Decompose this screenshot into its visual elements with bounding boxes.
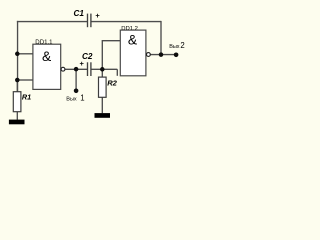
wire top feedback right segment xyxy=(91,21,161,23)
svg-text:R2: R2 xyxy=(107,79,117,88)
terminal Vyh2 dot xyxy=(174,53,179,58)
wire C2 to node B xyxy=(91,68,117,70)
resistor R2 body xyxy=(99,77,107,97)
capacitor C2 plates xyxy=(88,62,91,76)
wire right feedback drop xyxy=(160,21,162,55)
wire DD1.1 input 1 xyxy=(17,53,33,55)
wire DD1.2 output xyxy=(150,54,176,56)
terminal Vyh1 dot xyxy=(74,89,79,94)
svg-text:R1: R1 xyxy=(22,93,31,102)
wire R1 bottom lead xyxy=(16,112,18,120)
node B: C2 / R2 junction xyxy=(100,67,105,72)
node: feedback junction xyxy=(159,52,164,57)
node A: DD1.1 input 1 junction xyxy=(15,52,20,57)
wire R1 top lead xyxy=(16,80,18,92)
wire R2 bottom lead xyxy=(101,97,103,113)
node: DD1.1 input 2 junction xyxy=(15,78,20,83)
wire left input bus xyxy=(17,21,19,92)
wire DD1.1 output to C2 xyxy=(65,68,87,70)
svg-text:C1: C1 xyxy=(74,9,85,18)
svg-text:DD1.2: DD1.2 xyxy=(121,26,138,32)
logic gate DD1.1 body xyxy=(33,44,61,89)
wire top feedback left segment xyxy=(17,21,88,23)
svg-text:+: + xyxy=(80,59,85,68)
ground (R1) xyxy=(9,120,25,125)
wire node B up to DD1.2 input 1 xyxy=(102,41,120,70)
wire DD1.1 input 2 xyxy=(17,79,33,81)
capacitor C1 plates xyxy=(88,14,91,28)
svg-text:&: & xyxy=(42,49,51,64)
node: DD1.1 output junction xyxy=(74,67,79,72)
svg-text:DD1.1: DD1.1 xyxy=(35,39,53,46)
DD1.1 output bubble xyxy=(61,67,65,71)
DD1.2 output bubble xyxy=(147,53,151,57)
resistor R1 body xyxy=(13,92,21,112)
ground (R2) xyxy=(95,113,111,118)
svg-text:&: & xyxy=(128,33,137,48)
svg-text:+: + xyxy=(95,11,100,20)
wire output 1 drop xyxy=(75,69,77,91)
logic gate DD1.2 body xyxy=(120,30,146,76)
wire DD1.2 input 2 hook xyxy=(116,69,118,76)
wire R2 top lead xyxy=(101,69,103,77)
